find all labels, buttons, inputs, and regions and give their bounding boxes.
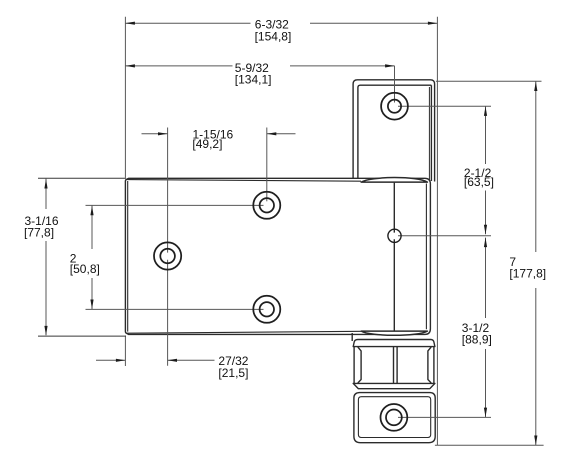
dimension line 2-1/2 (485, 106, 487, 234)
middle small hole (388, 229, 401, 242)
top tab outer outline (353, 80, 435, 182)
leaf hole upper-right outer (253, 192, 280, 219)
bottom tab hole outer (381, 404, 408, 431)
leaf hole middle-left outer (154, 242, 181, 269)
leaf inner bottom bevel line (127, 331, 361, 333)
centerline upper leaf hole horizontal (86, 204, 264, 206)
knuckle top collar (353, 340, 435, 347)
arrow 7 top (534, 82, 537, 92)
knuckle body outer right (433, 347, 435, 384)
svg-text:[177,8]: [177,8] (509, 267, 546, 281)
extension line left (leaf left edge, upper) (124, 17, 126, 178)
arrow 2 top (90, 206, 93, 216)
arrow 6-3/32 right (428, 22, 438, 25)
extension line left (leaf left edge, lower to 27/32) (124, 336, 126, 367)
strap left edge below leaf (351, 333, 353, 341)
arrow 1-15/16 left (158, 132, 168, 135)
dimension line 7 (535, 81, 537, 445)
top tab inner outline (358, 85, 432, 181)
leaf hole upper-right inner (260, 198, 274, 212)
svg-text:[134,1]: [134,1] (235, 73, 272, 87)
leaf hole lower-right inner (260, 302, 274, 316)
centerline middle hole horizontal (398, 235, 491, 237)
arrow 2-1/2 top (484, 106, 487, 116)
top tab inner right line (428, 87, 430, 180)
svg-text:[154,8]: [154,8] (255, 29, 292, 43)
knuckle bottom collar (353, 383, 435, 388)
dimension line 6-3/32 (125, 22, 437, 24)
arrow 27/32 right (168, 359, 178, 362)
arrow 5-9/32 right (385, 64, 395, 67)
knuckle body inner right with chamfers (428, 347, 431, 383)
svg-text:[77,8]: [77,8] (24, 226, 54, 240)
arrow 1-15/16 right (267, 132, 277, 135)
bottom tab hole inner (386, 410, 402, 426)
knuckle body inner left with chamfers (358, 347, 361, 383)
bottom tab inner outline (358, 397, 430, 438)
arrow 3-1/2 top (484, 238, 487, 248)
arrow 2 bottom (90, 300, 93, 310)
arrow 7 bottom (534, 436, 537, 446)
arrow 3-1/16 bottom (44, 326, 47, 336)
extension line 3-1/16 bottom (38, 335, 126, 337)
centerline lower leaf hole horizontal (86, 308, 264, 310)
extension line 7 top (436, 80, 542, 82)
svg-text:[63,5]: [63,5] (464, 175, 494, 189)
leaf fold line (middle vertical) (393, 183, 395, 331)
dimension line 3-1/2 (485, 238, 487, 418)
centerline top hole vertical (394, 66, 396, 103)
top tab hole inner (388, 100, 401, 113)
extension line right overall width x=437 (436, 17, 438, 446)
arrow 27/32 left (116, 359, 126, 362)
arrow 5-9/32 left (125, 64, 134, 67)
knuckle mid line a (393, 347, 395, 384)
leaf inner top bevel line (127, 180, 361, 182)
centerline right hole column vertical (266, 128, 268, 202)
top bend dome (361, 178, 427, 183)
bottom bend dome (361, 331, 427, 335)
arrow 3-1/2 bottom (484, 408, 487, 418)
leaf inner left edge (127, 181, 129, 332)
leaf inner right edge (425, 184, 427, 330)
svg-text:[88,9]: [88,9] (462, 332, 492, 346)
leaf hole lower-right outer (253, 296, 280, 323)
dimension line 3-1/16 (45, 179, 47, 336)
svg-text:[21,5]: [21,5] (218, 366, 248, 380)
knuckle body outer left (353, 347, 355, 384)
top tab hole outer (381, 93, 408, 120)
dimension line 27/32 (96, 359, 215, 361)
bottom tab outer outline (354, 393, 435, 443)
svg-text:[49,2]: [49,2] (192, 137, 222, 151)
leaf outer outline (125, 178, 430, 334)
centerline bottom hole horizontal (398, 416, 491, 418)
centerline left hole column vertical (167, 128, 169, 366)
centerline top hole horizontal (398, 105, 491, 107)
dimension line 2 (91, 206, 93, 310)
dimension line 5-9/32 (125, 65, 394, 67)
arrow 3-1/16 top (44, 179, 47, 189)
arrow 6-3/32 left (125, 22, 134, 25)
extension line 3-1/16 top (38, 177, 126, 179)
extension line 7 bottom (435, 444, 544, 446)
arrow 2-1/2 bottom (484, 225, 487, 235)
knuckle mid line b (396, 347, 398, 384)
dimension line 1-15/16 (142, 133, 296, 135)
leaf hole middle-left inner (160, 249, 175, 264)
svg-text:[50,8]: [50,8] (70, 262, 100, 276)
